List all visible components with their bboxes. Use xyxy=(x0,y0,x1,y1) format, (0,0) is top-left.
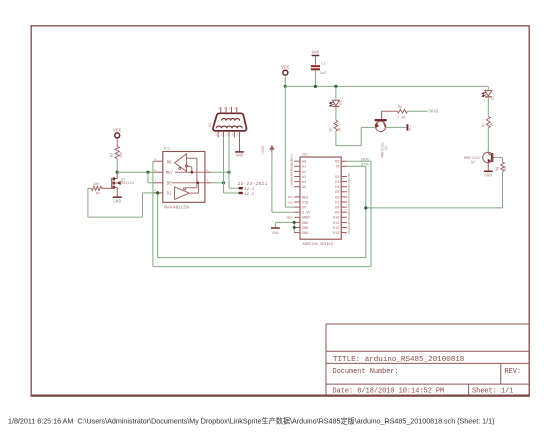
bubble RO out xyxy=(185,165,187,167)
wire B net xyxy=(211,182,224,184)
svg-text:A2: A2 xyxy=(302,171,306,175)
svg-text:PD8: PD8 xyxy=(348,203,351,208)
svg-text:BSS123: BSS123 xyxy=(121,182,134,186)
resistor R3 xyxy=(115,146,119,158)
svg-text:1/8/2011 8:25:16 AM C:\Users\: 1/8/2011 8:25:16 AM C:\Users\Administrat… xyxy=(8,416,494,425)
svg-text:Date: 8/18/2010 10:14:52 PM: Date: 8/18/2010 10:14:52 PM xyxy=(333,388,445,396)
wire D2 to R7 xyxy=(487,97,489,117)
wire RX out xyxy=(347,160,371,162)
svg-text:IC1: IC1 xyxy=(163,148,171,152)
svg-text:DE: DE xyxy=(167,183,172,187)
svg-text:D2: D2 xyxy=(492,96,496,100)
svg-text:1K: 1K xyxy=(491,122,495,127)
svg-text:GND: GND xyxy=(236,155,244,159)
svg-text:C1: C1 xyxy=(321,62,326,66)
svg-text:RES: RES xyxy=(302,196,308,200)
junction RE/DE tie xyxy=(146,171,149,174)
svg-text:+3V3: +3V3 xyxy=(262,145,266,155)
svg-text:DRXD: DRXD xyxy=(361,159,370,163)
internal DE line xyxy=(172,182,205,184)
internal wire DI out xyxy=(189,192,198,194)
pin 4 DI stub xyxy=(153,192,163,194)
ground shield xyxy=(271,227,280,229)
svg-text:X1: X1 xyxy=(209,122,213,127)
svg-text:AREF: AREF xyxy=(286,217,293,220)
wire R6 to DRXD xyxy=(408,110,428,112)
wire R4 to gate xyxy=(102,187,113,189)
svg-text:D5: D5 xyxy=(335,191,339,195)
wire TX out xyxy=(347,165,366,167)
svg-text:D9: D9 xyxy=(335,212,339,216)
wire shield GND pins xyxy=(293,222,295,232)
svg-text:RES: RES xyxy=(288,196,293,199)
wire VCC stem xyxy=(284,75,286,86)
svg-text:PD3: PD3 xyxy=(348,178,351,183)
ground below Q2 xyxy=(484,170,493,172)
frame bottom edge xyxy=(31,395,530,397)
op-amp U1 box (IC1) xyxy=(163,152,205,203)
svg-text:VIN: VIN xyxy=(302,201,308,205)
svg-text:3: 3 xyxy=(155,180,157,183)
wire node to RE pin xyxy=(117,171,153,173)
junction VCC rail left xyxy=(284,85,287,88)
LED D1 xyxy=(332,100,339,106)
svg-text:RX: RX xyxy=(335,161,340,165)
driver buffer (IC1 bottom) xyxy=(175,187,190,200)
ground X1 xyxy=(235,151,244,153)
svg-text:TITLE: arduino_RS485_20100818: TITLE: arduino_RS485_20100818 xyxy=(333,356,465,364)
svg-text:PD4: PD4 xyxy=(348,183,351,188)
svg-text:7: 7 xyxy=(224,108,226,111)
svg-text:Q2: Q2 xyxy=(471,160,475,164)
pin X2-2 xyxy=(239,192,243,194)
X1 pins 6-9 xyxy=(220,107,222,114)
svg-text:D6: D6 xyxy=(335,196,339,200)
ground below Q1 xyxy=(113,196,122,198)
junction TX branch xyxy=(364,206,367,209)
wire R5 to Q3 gate xyxy=(335,131,337,146)
svg-text:D2: D2 xyxy=(335,176,339,180)
border frame xyxy=(31,26,529,395)
pin X2-1 xyxy=(239,187,243,189)
junction C1 rail xyxy=(314,85,317,88)
svg-text:R7: R7 xyxy=(482,123,486,127)
svg-text:DTXD: DTXD xyxy=(361,164,370,168)
svg-text:A5: A5 xyxy=(302,186,306,190)
LED D2 arrows xyxy=(483,92,486,93)
wire rail to D2 xyxy=(487,86,489,90)
svg-text:GND: GND xyxy=(485,174,493,178)
shield right pins xyxy=(341,160,347,162)
internal junction A xyxy=(191,171,194,174)
transistor Q1 xyxy=(116,172,118,178)
svg-text:1uF: 1uF xyxy=(320,72,328,76)
wire R4 to DI net xyxy=(88,187,91,189)
svg-text:DRXD: DRXD xyxy=(428,111,438,115)
pin 3 DE stub xyxy=(153,182,163,184)
svg-text:A3: A3 xyxy=(302,176,306,180)
pin 1 RO stub xyxy=(153,160,163,162)
svg-text:R4: R4 xyxy=(96,193,100,197)
bubble RE xyxy=(179,167,181,169)
connector X1 shell xyxy=(213,113,247,131)
junction Q1 drain node xyxy=(116,171,119,174)
junction GND pin2 xyxy=(293,226,296,229)
svg-text:PD6: PD6 xyxy=(348,193,351,198)
svg-text:3: 3 xyxy=(226,134,228,137)
internal RE line xyxy=(175,171,205,173)
wire VCC to 5V pin xyxy=(284,86,286,207)
title block xyxy=(325,324,327,395)
svg-text:GND: GND xyxy=(302,232,308,236)
svg-text:D12: D12 xyxy=(333,227,339,231)
svg-text:PD2: PD2 xyxy=(348,173,351,178)
junction DI net xyxy=(156,191,159,194)
wire Q2 base to R8 xyxy=(493,157,502,159)
svg-text:Document Number:: Document Number: xyxy=(333,368,399,376)
svg-text:Sheet: 1/1: Sheet: 1/1 xyxy=(472,388,513,396)
svg-text:X2-1: X2-1 xyxy=(244,188,254,192)
svg-text:22-23-2021: 22-23-2021 xyxy=(238,182,268,187)
svg-text:D4: D4 xyxy=(335,186,339,190)
connector X1 bottom contacts xyxy=(216,126,242,128)
svg-text:DI: DI xyxy=(167,193,172,197)
resistor R6 xyxy=(382,110,398,112)
svg-text:MAX481CSA: MAX481CSA xyxy=(164,204,190,210)
wire X1 pin2 to B xyxy=(223,137,225,183)
wire X1 pin5 to ground xyxy=(239,137,241,151)
svg-text:1K: 1K xyxy=(504,165,508,170)
svg-text:1.8K: 1.8K xyxy=(397,117,406,121)
wire R3 to node xyxy=(116,159,118,173)
power +3V3 xyxy=(271,148,273,153)
LED D2 xyxy=(485,91,492,97)
wire C1 to rail xyxy=(314,70,316,86)
svg-text:ARDUINO_SHIELD: ARDUINO_SHIELD xyxy=(302,243,334,247)
svg-text:5V: 5V xyxy=(302,207,307,211)
svg-text:PD5: PD5 xyxy=(348,188,351,193)
svg-text:RE/: RE/ xyxy=(166,171,174,176)
svg-text:2: 2 xyxy=(155,169,157,172)
svg-text:VCC: VCC xyxy=(408,125,412,131)
svg-text:AREF: AREF xyxy=(302,217,311,221)
wire X1 pin3 to A xyxy=(228,137,230,172)
svg-text:TX: TX xyxy=(335,166,340,170)
IC arduino shield box xyxy=(300,157,341,239)
wire RE to DE tie xyxy=(147,172,149,183)
svg-text:A0: A0 xyxy=(302,161,306,165)
svg-text:D8: D8 xyxy=(335,207,339,211)
svg-text:2: 2 xyxy=(221,134,223,137)
junction A net xyxy=(227,171,230,174)
svg-text:U$1: U$1 xyxy=(302,152,308,156)
wire D1 to R5 xyxy=(335,107,337,121)
svg-text:6: 6 xyxy=(218,108,220,111)
svg-text:1: 1 xyxy=(215,134,217,137)
svg-text:1K: 1K xyxy=(338,126,342,131)
junction GND pin1 xyxy=(293,221,296,224)
wire gate Q3 xyxy=(361,126,375,128)
svg-text:5: 5 xyxy=(237,134,239,137)
svg-text:1: 1 xyxy=(155,158,157,161)
wire +3V3 to 3.3V pin xyxy=(271,153,273,212)
svg-text:RO: RO xyxy=(167,162,172,166)
svg-text:PD7: PD7 xyxy=(348,198,351,203)
svg-text:A1: A1 xyxy=(302,166,306,170)
bubble DE enable xyxy=(184,188,186,190)
resistor R8 xyxy=(501,162,505,172)
svg-text:GND: GND xyxy=(113,201,121,205)
shield left pins xyxy=(294,160,300,162)
wire rail to D1 xyxy=(335,86,337,100)
svg-text:A4: A4 xyxy=(302,181,306,185)
svg-text:REV:: REV: xyxy=(505,368,522,376)
svg-text:R3: R3 xyxy=(111,153,115,157)
svg-text:X2-2: X2-2 xyxy=(244,193,254,197)
resistor R5 xyxy=(334,120,338,131)
svg-text:D10: D10 xyxy=(333,217,339,221)
svg-text:PD13: PD13 xyxy=(348,227,351,234)
svg-text:R6: R6 xyxy=(398,106,402,110)
wire R7 to Q2 xyxy=(487,128,489,153)
svg-text:6: 6 xyxy=(206,169,208,172)
ground above C1 xyxy=(312,55,320,57)
pin A stub xyxy=(205,171,211,173)
junction B net xyxy=(222,181,225,184)
wire gnd to C1 xyxy=(314,56,316,65)
svg-text:10K: 10K xyxy=(93,183,100,187)
wire A net xyxy=(211,171,230,173)
svg-text:10K: 10K xyxy=(120,151,124,158)
internal junction B xyxy=(197,182,200,185)
svg-text:GND: GND xyxy=(272,232,278,236)
svg-text:D7: D7 xyxy=(335,201,339,205)
LED D1 arrows xyxy=(330,102,333,103)
wire R8 to DTXD net xyxy=(502,172,504,208)
svg-text:4: 4 xyxy=(232,134,234,137)
pin 2 RE stub xyxy=(153,171,163,173)
wire VCC rail xyxy=(285,85,488,87)
svg-text:R5: R5 xyxy=(330,127,334,131)
svg-text:D11: D11 xyxy=(333,222,339,226)
wire A to X2-1 xyxy=(228,172,230,188)
wire TX loop xyxy=(365,166,367,257)
power bar at Q3 xyxy=(406,124,408,130)
transistor Q3 xyxy=(381,111,383,120)
resistor R7 xyxy=(486,116,490,127)
connector X1 top contacts xyxy=(222,119,240,121)
internal wire RO to A xyxy=(187,157,197,159)
svg-text:GND: GND xyxy=(302,227,308,231)
transistor Q2 xyxy=(491,153,493,162)
wire VCC to R3 xyxy=(116,138,118,146)
svg-text:3.3V: 3.3V xyxy=(302,212,311,216)
svg-text:9: 9 xyxy=(234,108,236,111)
receiver buffer (IC1 top) xyxy=(175,154,187,172)
pin B stub xyxy=(205,182,211,184)
svg-text:7: 7 xyxy=(206,179,208,182)
X1 pins 1-5 xyxy=(217,131,219,137)
svg-text:R8: R8 xyxy=(497,167,501,171)
svg-text:(ADC5): (ADC5) xyxy=(290,178,294,188)
junction LED1 rail xyxy=(334,85,337,88)
svg-text:Q3: Q3 xyxy=(384,146,388,150)
wire Q3 to VCC bar xyxy=(385,126,406,128)
svg-text:VIN: VIN xyxy=(288,201,293,204)
svg-text:8: 8 xyxy=(229,108,231,111)
svg-text:D13: D13 xyxy=(333,232,339,236)
wire RX loop xyxy=(370,161,372,266)
svg-text:GND: GND xyxy=(312,52,320,56)
svg-text:D3: D3 xyxy=(335,181,339,185)
wire B to X2-2 xyxy=(223,183,225,193)
svg-text:GND: GND xyxy=(302,222,308,226)
resistor R4 xyxy=(91,186,101,190)
svg-text:D1: D1 xyxy=(339,101,343,105)
capacitor C1 xyxy=(311,65,320,67)
